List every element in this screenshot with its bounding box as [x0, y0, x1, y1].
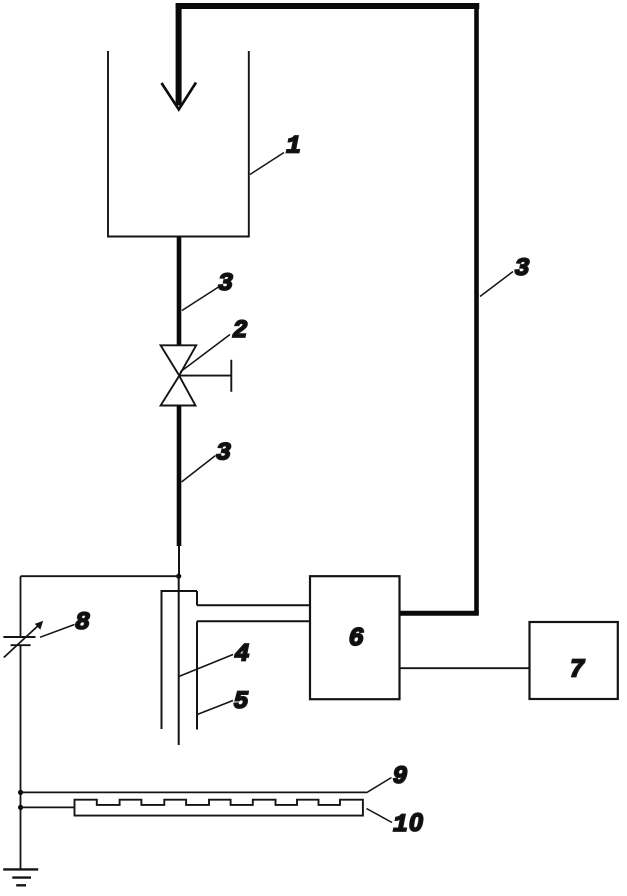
label 3 upper leader — [182, 287, 219, 311]
svg-text:6: 6 — [349, 623, 365, 653]
nozzle 5 : outer tube right wall lower segment — [196, 621, 198, 729]
label 8 leader — [40, 625, 75, 638]
node : junction dot on left rail (plate 10 wire) — [18, 805, 23, 810]
capacitor 8 : variable arrow — [4, 623, 42, 658]
label 10 leader — [367, 809, 393, 823]
wire : rail to plate 10 — [21, 806, 75, 808]
wire : connector box 6 to box 7 — [400, 667, 530, 669]
node : junction dot at capillary top — [176, 574, 181, 579]
label 3 right leader — [480, 272, 513, 297]
svg-text:4: 4 — [235, 640, 250, 669]
svg-text:3: 3 — [515, 254, 530, 283]
svg-text:10: 10 — [393, 809, 423, 839]
svg-text:1: 1 — [286, 132, 301, 161]
wire : left rail vertical (to ground) — [20, 576, 22, 869]
ground : earth symbol bottom left — [3, 868, 38, 870]
wire : lower side-port line to box 6 — [197, 620, 310, 622]
vessel 1 : open-top container — [108, 51, 249, 237]
svg-text:8: 8 — [75, 608, 90, 637]
svg-text:2: 2 — [233, 316, 248, 345]
wire : thick right rail down (x=476.5, y=6 to y=613) — [474, 4, 479, 614]
svg-text:3: 3 — [218, 269, 233, 298]
nozzle 5 : outer tube left wall and top — [162, 591, 198, 729]
box 6 : control unit rectangle — [310, 576, 400, 699]
capacitor 8 : variable capacitor bottom plate — [11, 644, 31, 646]
valve 2 : bowtie valve upper triangle — [161, 345, 197, 375]
valve 2 : bowtie valve lower triangle — [161, 376, 196, 406]
capacitor 8 : variable capacitor top plate — [3, 636, 35, 638]
wire : upper side-port line to box 6 — [197, 604, 310, 606]
svg-text:9: 9 — [393, 762, 408, 791]
label 4 leader — [179, 655, 233, 677]
arrow : inlet arrowhead inside vessel 1 — [162, 83, 197, 110]
wire : thick top feed pipe (horizontal run, x=179 to x=477, y=6) — [176, 3, 480, 9]
wire : thin continuation of pipe to junction — [178, 545, 180, 576]
capillary 4 : central capillary line — [178, 576, 180, 745]
wire : counter-electrode line 9 — [21, 791, 367, 793]
svg-text:7: 7 — [569, 655, 585, 685]
box 7 : unit rectangle — [530, 622, 618, 699]
valve 2 : stem and T-handle — [179, 360, 231, 392]
plate 10 : grooved collector plate with square-wave top — [75, 800, 363, 816]
wire : thick pipe valve down to capillary — [177, 406, 182, 547]
wire : thick elbow into box 6 (y=613, x=400 to x=478.5) — [400, 611, 479, 616]
wire : thick pipe vessel to valve — [177, 237, 182, 346]
label 2 leader — [180, 335, 230, 373]
svg-text:3: 3 — [216, 439, 231, 468]
node : junction dot on left rail (line 9) — [18, 790, 23, 795]
wire : thick feed pipe down into vessel (x=179) — [176, 4, 182, 106]
nozzle 5 : outer tube right wall upper segment — [196, 591, 198, 605]
svg-text:5: 5 — [234, 687, 249, 716]
label 9 leader — [366, 778, 391, 793]
label 3 lower leader — [182, 456, 216, 483]
label 5 leader — [197, 701, 233, 715]
label 1 leader line — [250, 153, 284, 175]
wire : horizontal wire junction to left rail — [21, 575, 179, 577]
